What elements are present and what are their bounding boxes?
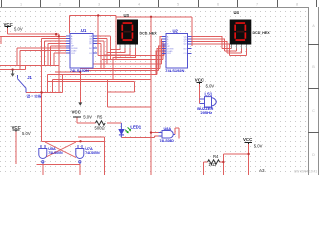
svg-text:VCC: VCC bbox=[72, 109, 82, 114]
svg-text:1kΩ: 1kΩ bbox=[208, 162, 216, 167]
svg-text:R4: R4 bbox=[213, 154, 219, 159]
svg-text:2: 2 bbox=[59, 3, 61, 7]
svg-text:CO: CO bbox=[89, 53, 92, 55]
svg-text:500Ω: 500Ω bbox=[95, 125, 105, 130]
svg-text:74LS08D: 74LS08D bbox=[160, 139, 175, 143]
svg-text:BO: BO bbox=[184, 48, 187, 50]
svg-text:3: 3 bbox=[98, 3, 100, 7]
svg-text:U8A: U8A bbox=[164, 127, 172, 131]
svg-text:LED1: LED1 bbox=[130, 124, 141, 129]
svg-text:5: 5 bbox=[177, 3, 179, 7]
svg-text:DCD_HEX: DCD_HEX bbox=[253, 31, 271, 35]
svg-text:U3: U3 bbox=[124, 13, 130, 18]
svg-text:200Hz: 200Hz bbox=[201, 110, 213, 115]
svg-text:A3: A3 bbox=[259, 168, 265, 173]
svg-text:7: 7 bbox=[256, 3, 258, 7]
svg-text:VCC: VCC bbox=[195, 78, 205, 83]
svg-text:J1: J1 bbox=[27, 75, 32, 80]
svg-text:8: 8 bbox=[296, 3, 298, 7]
svg-text:R5: R5 bbox=[97, 115, 103, 120]
svg-text:5.0V: 5.0V bbox=[254, 143, 263, 148]
svg-text:CLR: CLR bbox=[71, 53, 76, 55]
svg-text:5.0V: 5.0V bbox=[22, 131, 31, 136]
svg-text:BO: BO bbox=[89, 48, 92, 50]
svg-text:VCC: VCC bbox=[4, 22, 14, 27]
svg-text:DCD_HEX: DCD_HEX bbox=[140, 32, 158, 36]
svg-text:74LS00N: 74LS00N bbox=[48, 151, 63, 155]
svg-text:VCC: VCC bbox=[243, 137, 253, 142]
svg-text:5.0V: 5.0V bbox=[206, 84, 215, 89]
svg-text:4: 4 bbox=[138, 3, 140, 7]
svg-text:U2: U2 bbox=[173, 28, 179, 33]
svg-text:LS1: LS1 bbox=[205, 92, 213, 97]
svg-text:1: 1 bbox=[20, 2, 22, 6]
svg-text:CW 09/04 19:41: CW 09/04 19:41 bbox=[294, 169, 317, 173]
svg-text:A: A bbox=[312, 24, 315, 28]
svg-text:B: B bbox=[312, 65, 315, 69]
svg-text:U1: U1 bbox=[81, 28, 87, 33]
svg-text:5.0V: 5.0V bbox=[14, 27, 23, 32]
svg-text:74LS192N: 74LS192N bbox=[70, 68, 89, 73]
svg-text:C: C bbox=[312, 109, 315, 113]
svg-text:U4: U4 bbox=[234, 10, 240, 15]
svg-text:5.0V: 5.0V bbox=[83, 115, 92, 120]
svg-text:键 = 空格: 键 = 空格 bbox=[27, 93, 42, 98]
svg-text:VCC: VCC bbox=[12, 125, 22, 130]
svg-text:D: D bbox=[312, 153, 315, 157]
svg-text:CO: CO bbox=[184, 53, 187, 55]
svg-text:CLR: CLR bbox=[167, 53, 172, 55]
svg-text:6: 6 bbox=[217, 3, 219, 7]
svg-text:74LS00N: 74LS00N bbox=[85, 151, 100, 155]
svg-text:74LS192N: 74LS192N bbox=[165, 68, 184, 73]
